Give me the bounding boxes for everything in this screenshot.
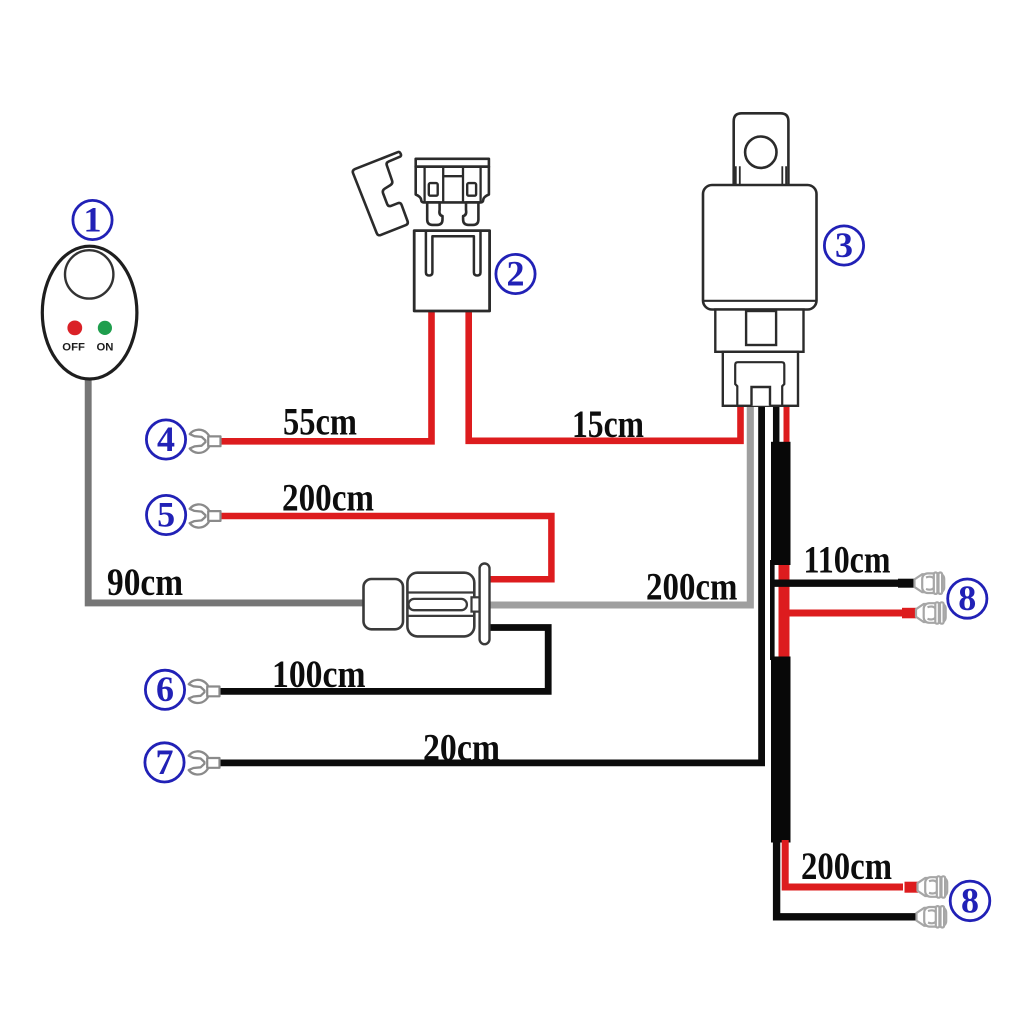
- wire W-90cm gray from switch to connector: [88, 376, 366, 603]
- terminal fork T4: [190, 430, 221, 453]
- connector CN1 key protrusion: [472, 597, 481, 611]
- wire W-15cm red from fuse right lead to relay pin: [469, 311, 741, 441]
- svg-text:2: 2: [507, 253, 525, 293]
- wire W-200cm gray from connector to relay: [489, 404, 750, 605]
- cable sheath lower black bundle: [771, 657, 791, 843]
- spade terminal S2 (red): [916, 602, 946, 623]
- spade terminal S4 (black bottom): [917, 906, 947, 927]
- fuse top cap: [416, 159, 489, 167]
- blade fuse F1: [416, 159, 489, 225]
- fuse body: [416, 167, 489, 203]
- relay tab slit left: [736, 166, 740, 186]
- connector CN1 main body: [407, 573, 474, 637]
- svg-text:90cm: 90cm: [107, 560, 183, 604]
- connector CN1 left cap: [364, 579, 404, 629]
- svg-text:20cm: 20cm: [423, 725, 500, 769]
- fuse left window: [429, 183, 438, 196]
- wire W7 black 20cm from terminal 7 to relay pin: [219, 407, 762, 763]
- relay tab hole: [745, 137, 776, 168]
- relay mid collar: [715, 310, 803, 352]
- relay socket block: [723, 352, 798, 406]
- relay socket inner outline: [735, 362, 784, 406]
- wire relay black pin lead: [773, 407, 780, 450]
- svg-text:15cm: 15cm: [572, 402, 644, 446]
- terminal fork T5: [190, 504, 221, 527]
- spade terminal S1 (110cm black): [915, 573, 945, 594]
- number badge 5: [147, 494, 186, 534]
- wire red branch to spade: [780, 610, 902, 617]
- number badge 6: [145, 669, 184, 709]
- number badge 8 top: [948, 578, 987, 618]
- svg-text:7: 7: [156, 742, 174, 782]
- fuse panel divider right: [462, 167, 464, 203]
- wire black vertical mid segment between sheaths: [770, 560, 775, 660]
- svg-text:200cm: 200cm: [801, 844, 892, 888]
- svg-text:200cm: 200cm: [646, 565, 738, 609]
- fuse panel divider left: [442, 167, 444, 203]
- relay mid inner key: [746, 311, 776, 345]
- crimp red boot: [902, 608, 916, 619]
- wire W6 black 100cm from terminal 6 to connector: [219, 628, 548, 692]
- svg-text:100cm: 100cm: [272, 652, 366, 696]
- number badge 2: [496, 253, 535, 293]
- holder cavity U outline: [426, 231, 481, 276]
- switch red indicator OFF: [67, 321, 82, 336]
- fuse right leg: [463, 202, 478, 225]
- crimp black on 110cm wire: [898, 579, 915, 588]
- crimp red boot bottom: [905, 882, 919, 893]
- svg-text:OFF: OFF: [62, 341, 85, 353]
- wire relay red pin lead: [784, 407, 790, 450]
- svg-text:55cm: 55cm: [283, 399, 357, 443]
- number badge 7: [145, 742, 184, 782]
- number badge 1: [73, 199, 112, 239]
- fuse right window: [467, 183, 476, 196]
- number badge 8 bottom: [950, 880, 990, 920]
- terminal fork T7: [189, 751, 220, 774]
- svg-text:ON: ON: [97, 341, 114, 353]
- switch SW1 body (component 1): [42, 246, 137, 379]
- svg-text:1: 1: [84, 199, 102, 239]
- terminal fork T6: [189, 680, 220, 703]
- relay body seam line: [703, 300, 817, 302]
- wire black bottom to spade: [777, 840, 917, 917]
- fuse element window line: [443, 175, 463, 177]
- connector CN1 right flange: [480, 564, 490, 645]
- fuse holder cover (component 2): [353, 152, 408, 235]
- relay tab (component 3 mounting tab): [734, 113, 789, 186]
- number badge 4: [146, 419, 185, 459]
- number badge 3: [824, 225, 863, 265]
- wire W5 red 200cm from terminal 5 to connector: [219, 516, 551, 579]
- wire black 110cm branch to spade: [772, 580, 903, 587]
- svg-text:200cm: 200cm: [282, 476, 374, 520]
- spade terminal S3 (200cm red bottom): [918, 876, 948, 897]
- fuse side divider right: [479, 167, 481, 203]
- switch green indicator ON: [98, 321, 112, 335]
- svg-text:110cm: 110cm: [804, 537, 891, 581]
- relay tab slit right: [782, 166, 786, 186]
- cable sheath upper black bundle: [771, 442, 791, 565]
- wire red bottom to spade 200cm: [785, 840, 903, 887]
- svg-text:6: 6: [156, 669, 174, 709]
- svg-text:5: 5: [157, 494, 175, 534]
- svg-text:8: 8: [958, 578, 976, 618]
- wire red vertical mid segment between sheaths: [779, 560, 790, 660]
- connector CN1 body lower line: [407, 615, 474, 617]
- relay socket notch: [752, 387, 771, 406]
- connector CN1 body upper line: [407, 591, 474, 593]
- wire W4 red 55cm from terminal 4 to fuse left lead: [219, 311, 432, 441]
- fuse side divider left: [423, 167, 425, 203]
- fuse left leg: [427, 202, 442, 225]
- connector CN1 slot: [409, 599, 467, 610]
- svg-text:4: 4: [157, 419, 175, 459]
- switch button circle: [65, 250, 113, 298]
- svg-text:3: 3: [835, 225, 853, 265]
- fuse holder body: [414, 231, 489, 311]
- relay main body: [703, 185, 817, 310]
- svg-text:8: 8: [961, 880, 979, 920]
